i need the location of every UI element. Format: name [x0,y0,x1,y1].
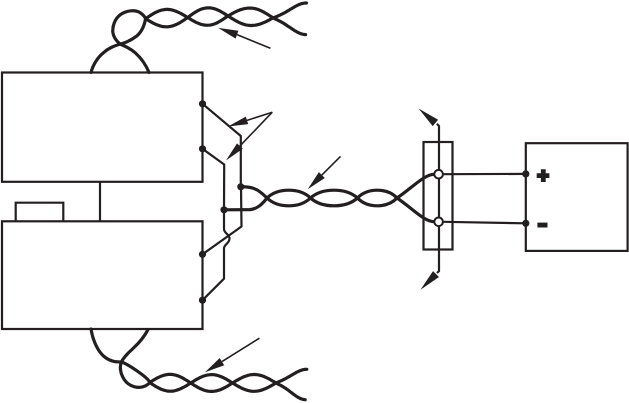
wire: J1 to J3 [203,104,241,187]
wire: lower terminal to battery - [443,222,526,224]
battery terminal dot - [522,220,529,227]
wire: J2 to J4 [203,149,225,210]
junction dot J2 [199,145,206,152]
wire: vertical link between terminals [438,174,440,222]
wire: middle twisted pair conductor from J3 to upper terminal [241,174,434,205]
callout arrow: middle twisted pair [322,156,341,175]
box: upper device (left) [2,73,203,182]
wire: J5 to J3 (diagonal then up) [203,187,242,255]
wire: vertical link through terminal strip (upper part) with arrow [437,124,439,170]
terminal strip rectangle [424,142,453,250]
wire: middle twisted pair conductor from J4 to lower terminal [224,190,434,221]
junction dot J5 [199,251,206,258]
arrowhead: terminal strip top arrow [419,109,438,127]
callout arrow: junction wire lower [240,112,272,146]
junction dot J4 [220,206,227,213]
junction dot J1 [199,100,206,107]
wire: J4 down to J6 with hop over crossing wire [203,210,230,300]
battery - symbol [537,223,547,228]
wire: bottom twisted pair conductor 2 (from box bottom left exit) [91,329,150,383]
small tab on lower device [16,203,64,222]
box: lower device (left) [2,221,203,329]
battery box [526,143,628,251]
junction dot J6 [199,297,206,304]
battery terminal dot + [522,170,529,177]
terminal (open circle) lower [434,218,443,227]
wire: top twisted pair conductor 1 (from box top left exit) [91,19,146,73]
terminal (open circle) upper [434,170,443,179]
battery + symbol [537,169,550,182]
arrowhead: terminal strip bottom arrow [421,271,440,290]
wire: top twisted pair conductor 2 (from box top right exit) [113,11,149,73]
junction dot J3 [237,183,244,190]
callout arrow: bottom twisted pair [222,338,259,361]
wire: bottom twisted pair conductor 1 (from box bottom right exit) [120,330,150,388]
wire: connector between upper and lower device [99,182,101,221]
callout arrow: junction wire upper [247,112,272,120]
callout arrow: top twisted pair [237,35,270,49]
wire: vertical link below terminal strip with arrow [437,226,439,273]
wire: upper terminal to battery + [443,173,526,176]
